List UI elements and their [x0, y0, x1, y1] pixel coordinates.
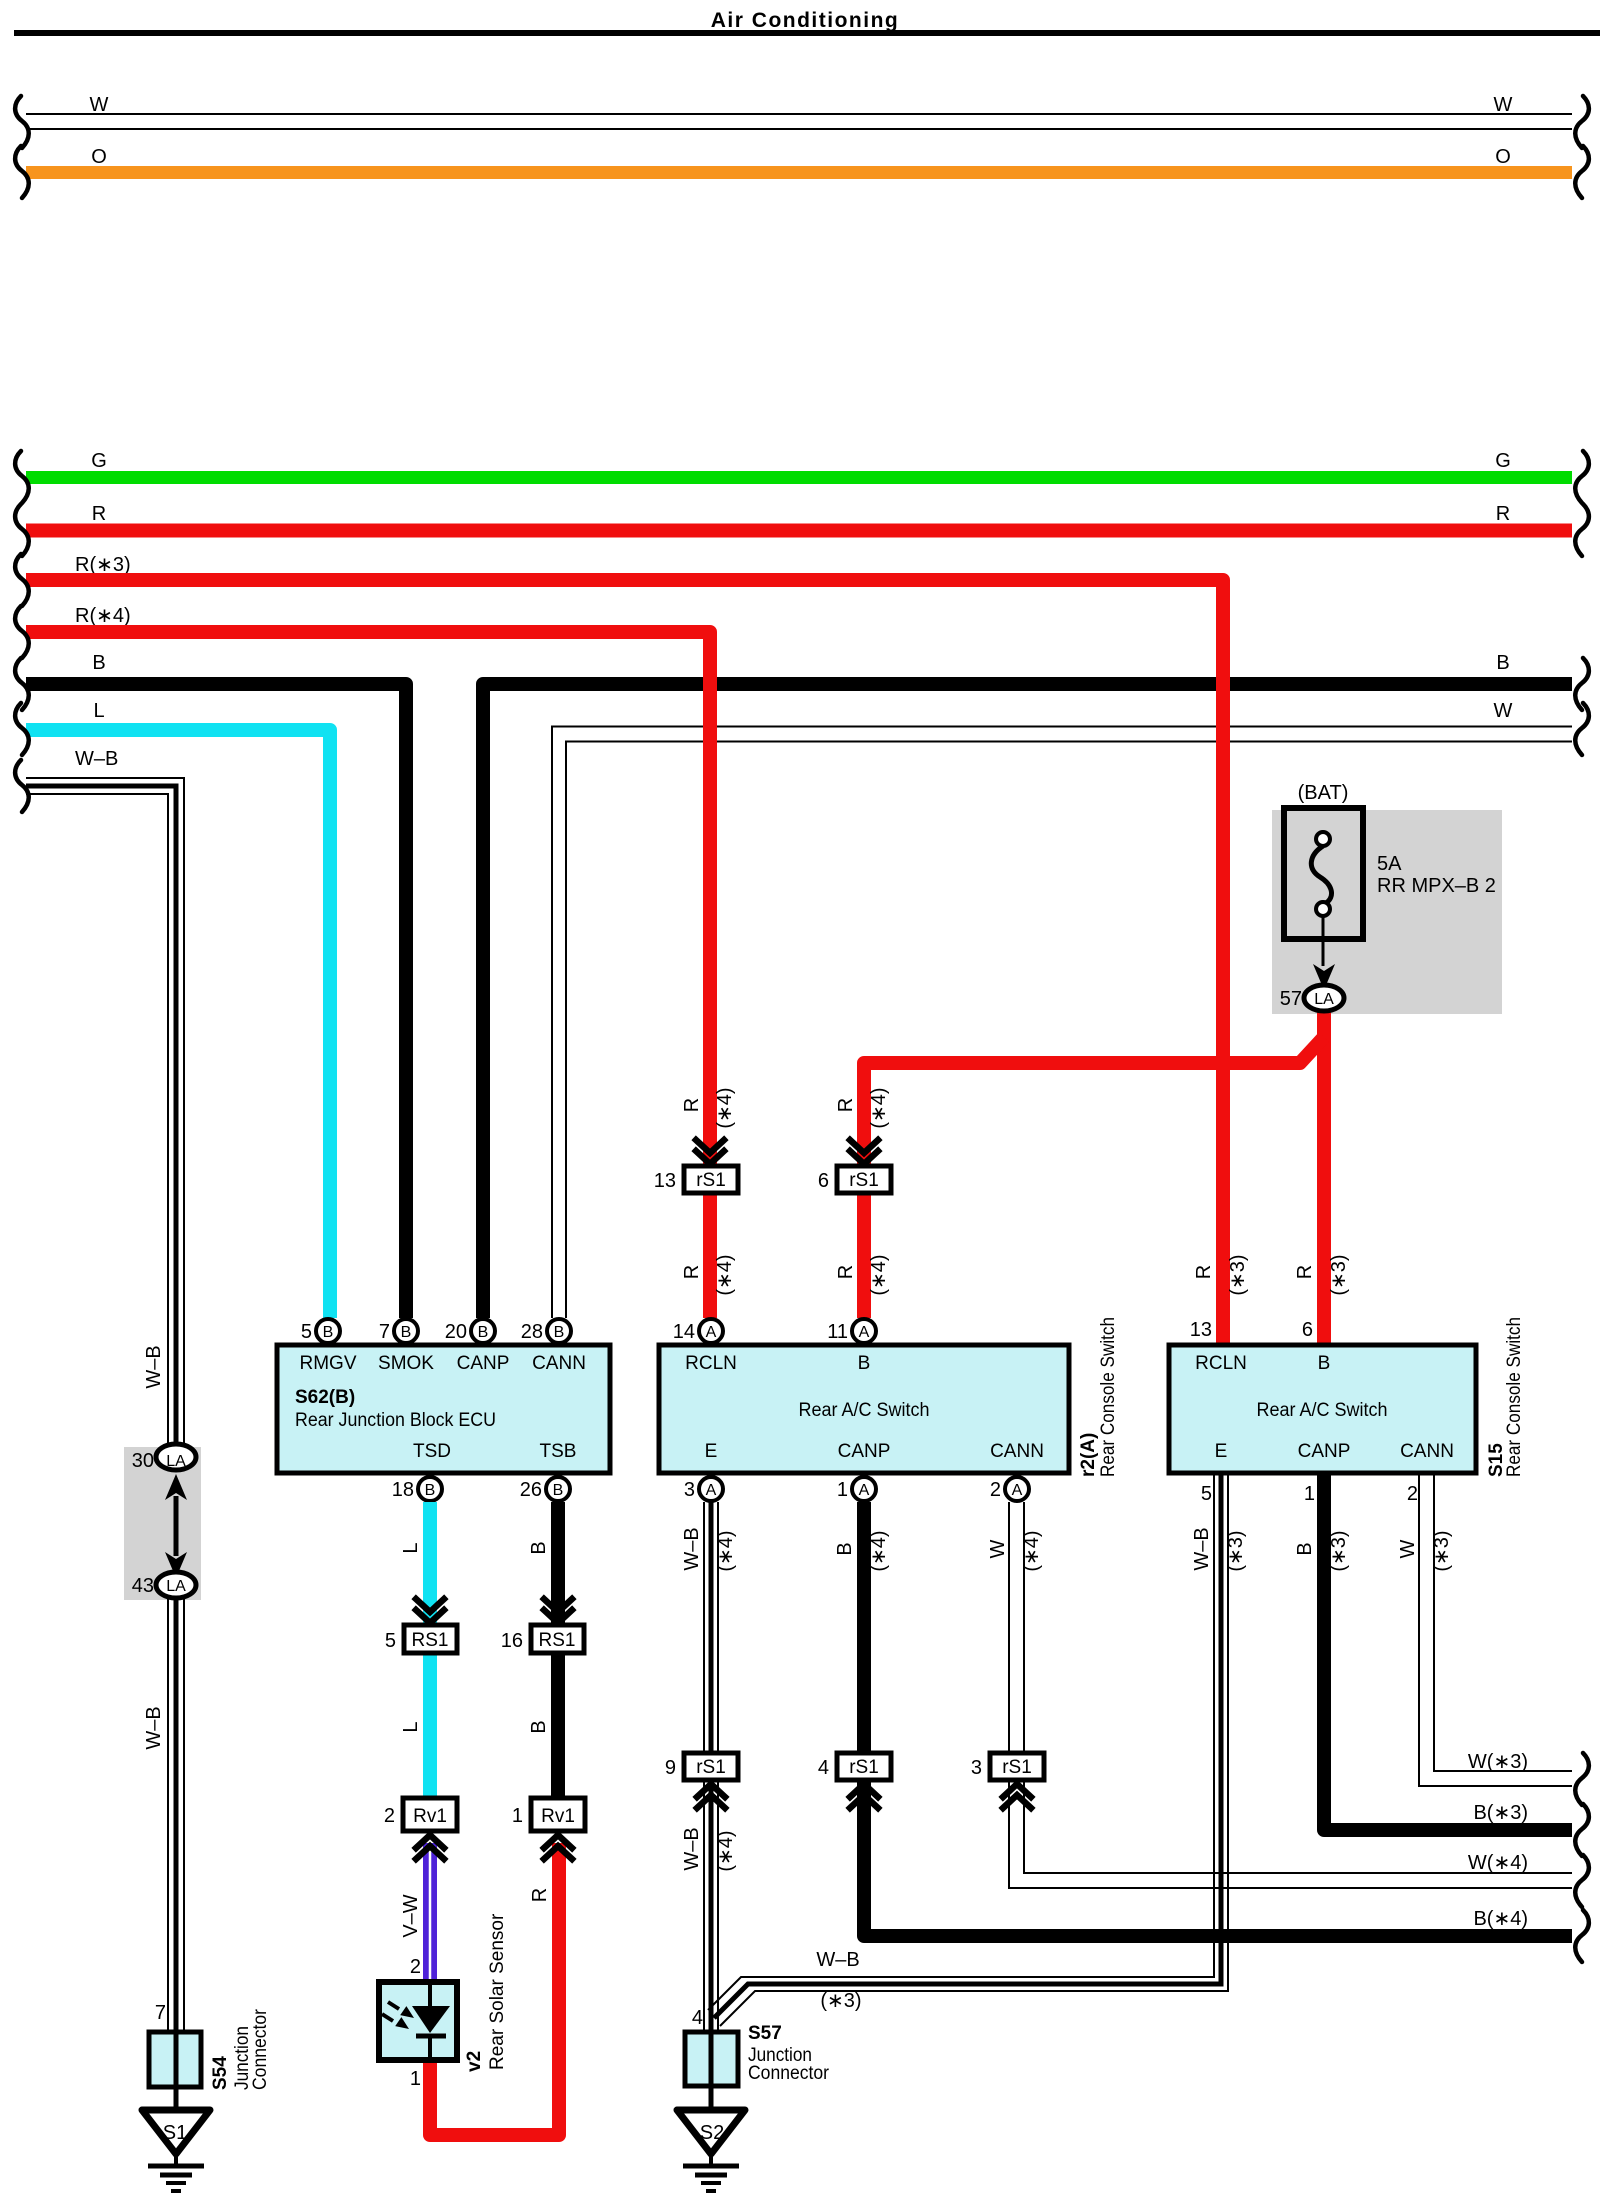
- svg-text:Rear Console Switch: Rear Console Switch: [1098, 1317, 1119, 1477]
- svg-text:B: B: [323, 1324, 334, 1341]
- svg-text:RCLN: RCLN: [1195, 1353, 1247, 1374]
- connector rS1 9: [684, 1753, 738, 1780]
- pin 2 A: [1005, 1477, 1029, 1501]
- connector 57 LA: [1304, 985, 1344, 1011]
- svg-text:rS1: rS1: [849, 1170, 879, 1191]
- svg-text:7: 7: [379, 1321, 390, 1343]
- svg-text:2: 2: [384, 1805, 395, 1827]
- svg-text:7: 7: [155, 2002, 166, 2024]
- connector RS1 5: [404, 1625, 457, 1653]
- svg-text:(∗4): (∗4): [868, 1254, 890, 1295]
- svg-text:13: 13: [654, 1170, 676, 1192]
- pin 20 B: [471, 1319, 495, 1343]
- svg-text:4: 4: [692, 2007, 703, 2029]
- svg-text:rS1: rS1: [696, 1170, 726, 1191]
- wire W pin2 down to W(*3): [1419, 1473, 1572, 1786]
- svg-text:A: A: [706, 1482, 717, 1499]
- pin 5 B: [316, 1319, 340, 1343]
- svg-text:Rv1: Rv1: [541, 1806, 575, 1827]
- connector rS1 4: [837, 1753, 891, 1780]
- svg-text:W(∗4): W(∗4): [1468, 1852, 1528, 1874]
- svg-text:(∗3): (∗3): [820, 1990, 861, 2012]
- svg-text:A: A: [1012, 1482, 1023, 1499]
- wire L cyan down to pin 5: [26, 730, 330, 1318]
- svg-text:W: W: [1397, 1539, 1419, 1558]
- svg-text:57: 57: [1280, 988, 1302, 1010]
- svg-text:5: 5: [301, 1321, 312, 1343]
- svg-text:R: R: [681, 1265, 703, 1279]
- svg-text:B: B: [1496, 652, 1509, 674]
- svg-text:rS1: rS1: [849, 1757, 879, 1778]
- svg-text:B: B: [1294, 1542, 1316, 1555]
- svg-text:5: 5: [385, 1630, 396, 1652]
- connector rS1 13: [684, 1166, 738, 1193]
- wire B pin1 down to B(*4): [864, 1502, 1572, 1936]
- svg-text:13: 13: [1190, 1319, 1212, 1341]
- solar sensor v2 box: [379, 1982, 457, 2060]
- svg-text:W–B: W–B: [143, 1706, 165, 1749]
- svg-text:(∗4): (∗4): [715, 1530, 737, 1571]
- svg-text:Air Conditioning: Air Conditioning: [711, 9, 899, 32]
- fuse block gray background: [1272, 810, 1502, 1014]
- svg-text:B: B: [554, 1324, 565, 1341]
- svg-text:B: B: [401, 1324, 412, 1341]
- chevron above RS1 16: [544, 1599, 572, 1623]
- svg-text:R: R: [1496, 503, 1510, 525]
- svg-text:(∗4): (∗4): [868, 1530, 890, 1571]
- pin 26 B: [546, 1477, 570, 1501]
- connector rS1 3: [990, 1753, 1044, 1780]
- svg-text:(∗3): (∗3): [1431, 1530, 1453, 1571]
- svg-text:Rear A/C Switch: Rear A/C Switch: [1257, 1400, 1388, 1421]
- svg-text:O: O: [1495, 146, 1511, 168]
- wire W-B left: outer thin, inner thin, thick core: [26, 778, 184, 2032]
- svg-text:11: 11: [827, 1321, 848, 1343]
- svg-text:(∗3): (∗3): [1225, 1530, 1247, 1571]
- svg-text:R: R: [529, 1888, 551, 1902]
- wire G bus: [26, 471, 1572, 484]
- svg-text:rS1: rS1: [696, 1757, 726, 1778]
- svg-text:Connector: Connector: [250, 2008, 271, 2090]
- wire R bus: [26, 524, 1572, 538]
- svg-text:CANN: CANN: [532, 1353, 586, 1374]
- svg-text:W: W: [90, 94, 109, 116]
- svg-text:A: A: [859, 1482, 870, 1499]
- svg-text:6: 6: [1302, 1319, 1313, 1341]
- svg-text:A: A: [706, 1324, 717, 1341]
- wire B bus left segment down to pin 7: [26, 684, 406, 1318]
- svg-text:A: A: [859, 1324, 870, 1341]
- svg-text:L: L: [93, 700, 104, 722]
- Rear A/C Switch r2(A) box: [659, 1345, 1069, 1473]
- svg-text:W: W: [1494, 700, 1513, 722]
- wire W-B pin3 down: [703, 1502, 705, 2032]
- svg-text:(BAT): (BAT): [1298, 782, 1349, 804]
- svg-text:LA: LA: [166, 1453, 186, 1470]
- Rear A/C Switch S15 box: [1169, 1345, 1476, 1473]
- svg-text:30: 30: [132, 1450, 154, 1472]
- wire B bus right segment from pin 20: [483, 684, 1572, 1318]
- ECU S62(B) box: [277, 1345, 610, 1473]
- svg-text:(∗4): (∗4): [714, 1254, 736, 1295]
- svg-text:3: 3: [971, 1757, 982, 1779]
- chevron on red branch pin11: [850, 1140, 878, 1164]
- svg-text:R: R: [1193, 1265, 1215, 1279]
- svg-text:(∗3): (∗3): [1227, 1254, 1249, 1295]
- svg-text:B: B: [92, 652, 105, 674]
- wire L pin18 to Rv1: [423, 1502, 437, 1800]
- svg-text:2: 2: [410, 1956, 421, 1978]
- connector RS1 16: [531, 1625, 584, 1653]
- svg-text:CANP: CANP: [457, 1353, 510, 1374]
- svg-text:1: 1: [512, 1805, 523, 1827]
- svg-text:W(∗3): W(∗3): [1468, 1751, 1528, 1773]
- svg-text:16: 16: [501, 1630, 523, 1652]
- svg-text:L: L: [400, 1542, 422, 1553]
- svg-text:1: 1: [1304, 1483, 1315, 1505]
- svg-text:6: 6: [818, 1170, 829, 1192]
- svg-text:B: B: [478, 1324, 489, 1341]
- svg-text:S57: S57: [748, 2023, 782, 2044]
- svg-text:W–B: W–B: [681, 1827, 703, 1870]
- svg-text:S2: S2: [700, 2122, 724, 2144]
- fuse 5A RR MPX-B 2: [1284, 808, 1363, 939]
- svg-text:1: 1: [410, 2068, 421, 2090]
- svg-text:B: B: [553, 1482, 564, 1499]
- svg-text:(∗3): (∗3): [1328, 1530, 1350, 1571]
- svg-text:(∗4): (∗4): [1021, 1530, 1043, 1571]
- svg-text:9: 9: [665, 1757, 676, 1779]
- connector Rv1 1: [531, 1798, 585, 1831]
- junction connector S54: [149, 2032, 201, 2087]
- arrows between LA connectors: [165, 1474, 187, 1500]
- svg-text:S1: S1: [163, 2122, 187, 2144]
- photodiode symbol: [428, 1982, 432, 2008]
- chevron on R(*4) wire pin14: [696, 1140, 724, 1164]
- svg-text:R: R: [1294, 1265, 1316, 1279]
- svg-text:RR MPX–B 2: RR MPX–B 2: [1377, 875, 1496, 897]
- svg-text:v2: v2: [464, 2051, 485, 2072]
- svg-text:LA: LA: [166, 1578, 186, 1595]
- connector 43 LA: [156, 1572, 196, 1598]
- svg-text:Rv1: Rv1: [413, 1806, 447, 1827]
- svg-text:B(∗4): B(∗4): [1473, 1908, 1528, 1930]
- svg-text:S54: S54: [210, 2056, 231, 2090]
- svg-text:SMOK: SMOK: [378, 1353, 434, 1374]
- svg-text:3: 3: [684, 1479, 695, 1501]
- svg-text:Rear Console Switch: Rear Console Switch: [1504, 1317, 1525, 1477]
- wire W bus top: [26, 114, 1572, 129]
- svg-text:1: 1: [837, 1479, 848, 1501]
- pin 11 A: [852, 1319, 876, 1343]
- svg-text:B: B: [1318, 1353, 1331, 1374]
- svg-text:RCLN: RCLN: [685, 1353, 737, 1374]
- svg-text:W–B: W–B: [816, 1949, 859, 1971]
- wire red branch to pin 11: [864, 1037, 1324, 1318]
- left edge break symbols: [15, 96, 29, 148]
- svg-text:CANN: CANN: [1400, 1441, 1454, 1462]
- svg-text:B: B: [858, 1353, 871, 1374]
- svg-text:CANP: CANP: [838, 1441, 891, 1462]
- svg-text:Rear A/C Switch: Rear A/C Switch: [799, 1400, 930, 1421]
- svg-text:14: 14: [673, 1321, 695, 1343]
- svg-text:B: B: [425, 1482, 436, 1499]
- wire W pin2 down to W(*4): [1009, 1502, 1572, 1888]
- connector Rv1 2: [403, 1798, 457, 1831]
- right edge break symbols: [1575, 96, 1589, 148]
- svg-text:4: 4: [818, 1757, 829, 1779]
- svg-text:W–B: W–B: [1191, 1527, 1213, 1570]
- svg-text:r2(A): r2(A): [1078, 1433, 1099, 1477]
- svg-text:W: W: [1494, 94, 1513, 116]
- svg-text:TSD: TSD: [413, 1441, 451, 1462]
- svg-text:Connector: Connector: [748, 2063, 830, 2084]
- pin 14 A: [699, 1319, 723, 1343]
- svg-text:5A: 5A: [1377, 853, 1402, 875]
- pin 3 A: [699, 1477, 723, 1501]
- wire V-W sensor pin 2: [423, 1843, 437, 1982]
- connector 30 LA: [156, 1444, 196, 1470]
- svg-text:B(∗3): B(∗3): [1473, 1802, 1528, 1824]
- svg-text:20: 20: [445, 1321, 467, 1343]
- svg-text:28: 28: [521, 1321, 543, 1343]
- wire W mid hollow: [552, 727, 1572, 1319]
- svg-text:(∗4): (∗4): [868, 1087, 890, 1128]
- svg-text:B: B: [834, 1542, 856, 1555]
- svg-text:Rear Junction Block ECU: Rear Junction Block ECU: [295, 1410, 496, 1431]
- svg-text:B: B: [528, 1541, 550, 1554]
- wire O bus: [26, 166, 1572, 179]
- svg-text:S62(B): S62(B): [295, 1387, 355, 1408]
- svg-text:R(∗3): R(∗3): [75, 554, 131, 576]
- svg-text:W–B: W–B: [143, 1345, 165, 1388]
- wire B pin1 down to B(*3): [1324, 1473, 1572, 1830]
- wire W-B pin5/E down and left to S57: [708, 1473, 1214, 2010]
- svg-text:18: 18: [392, 1479, 414, 1501]
- svg-text:L: L: [400, 1721, 422, 1732]
- svg-text:Rear Solar Sensor: Rear Solar Sensor: [487, 1913, 508, 2070]
- svg-text:R: R: [835, 1098, 857, 1112]
- svg-text:rS1: rS1: [1002, 1757, 1032, 1778]
- svg-text:(∗4): (∗4): [714, 1087, 736, 1128]
- wire R solar sensor to Rv1 1: [430, 1843, 559, 2135]
- LA connector gray background: [124, 1447, 201, 1600]
- pin 1 A: [852, 1477, 876, 1501]
- svg-text:5: 5: [1201, 1483, 1212, 1505]
- svg-text:TSB: TSB: [540, 1441, 577, 1462]
- ground S1: [142, 2110, 210, 2191]
- svg-text:R(∗4): R(∗4): [75, 605, 131, 627]
- wire R(*3) down to S15 pin 13: [26, 580, 1223, 1345]
- pin 7 B: [394, 1319, 418, 1343]
- svg-text:(∗3): (∗3): [1328, 1254, 1350, 1295]
- svg-text:E: E: [1215, 1441, 1228, 1462]
- svg-text:RMGV: RMGV: [300, 1353, 357, 1374]
- chevron below Rv1 1: [544, 1835, 572, 1859]
- svg-text:RS1: RS1: [412, 1630, 449, 1651]
- pin 18 B: [418, 1477, 442, 1501]
- chevron below Rv1 2: [416, 1835, 444, 1859]
- svg-text:RS1: RS1: [539, 1630, 576, 1651]
- svg-text:CANN: CANN: [990, 1441, 1044, 1462]
- svg-text:2: 2: [1407, 1483, 1418, 1505]
- junction connector S57: [685, 2032, 738, 2086]
- svg-text:B: B: [528, 1720, 550, 1733]
- svg-text:V–W: V–W: [400, 1894, 422, 1937]
- connector rS1 6: [837, 1166, 891, 1193]
- wire red fuse feed down to S15 pin 6: [1317, 1011, 1331, 1345]
- pin 28 B: [547, 1319, 571, 1343]
- chevron above RS1 5: [416, 1599, 444, 1623]
- svg-text:O: O: [91, 146, 107, 168]
- svg-text:43: 43: [132, 1575, 154, 1597]
- svg-text:LA: LA: [1314, 991, 1334, 1008]
- svg-text:26: 26: [520, 1479, 542, 1501]
- title rule: [14, 30, 1600, 36]
- svg-text:W: W: [987, 1539, 1009, 1558]
- wire B pin26 to Rv1: [551, 1502, 565, 1800]
- wire R(*4) down to pin 14: [26, 632, 710, 1318]
- svg-text:2: 2: [990, 1479, 1001, 1501]
- ground S2: [677, 2110, 745, 2191]
- svg-text:(∗4): (∗4): [715, 1830, 737, 1871]
- svg-text:E: E: [705, 1441, 718, 1462]
- svg-text:W–B: W–B: [681, 1527, 703, 1570]
- svg-text:R: R: [92, 503, 106, 525]
- svg-text:R: R: [681, 1098, 703, 1112]
- svg-text:G: G: [91, 450, 107, 472]
- svg-text:CANP: CANP: [1298, 1441, 1351, 1462]
- svg-text:R: R: [835, 1265, 857, 1279]
- svg-text:G: G: [1495, 450, 1511, 472]
- svg-text:W–B: W–B: [75, 748, 118, 770]
